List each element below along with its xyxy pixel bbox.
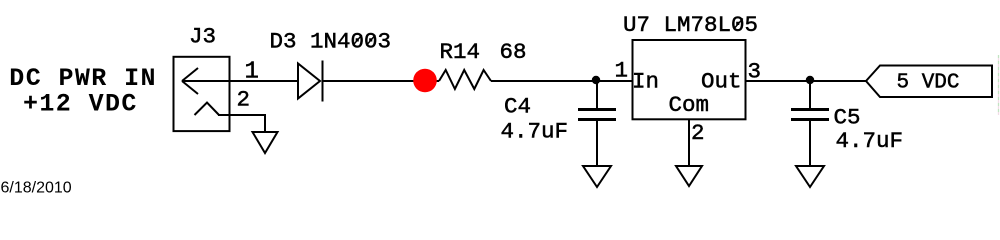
IC U7 LM78L05 body <box>633 40 746 119</box>
svg-text:In: In <box>632 69 659 95</box>
wire diode to resistor R14 <box>323 80 440 82</box>
net flag 5 VDC outline <box>866 66 992 98</box>
svg-text:Com: Com <box>669 92 710 118</box>
wire U7 Out pin3 to net flag <box>746 80 867 82</box>
svg-text:4.7uF: 4.7uF <box>836 128 904 154</box>
slashed zero of LM78L05 <box>734 19 743 30</box>
slashed zeros of 1N4003 <box>353 35 362 46</box>
diode D3 <box>298 61 323 102</box>
svg-text:5 VDC: 5 VDC <box>897 72 960 95</box>
ground (J3 pin2) <box>253 132 278 153</box>
svg-text:2: 2 <box>237 87 251 113</box>
svg-text:D3 1N4003: D3 1N4003 <box>270 29 392 55</box>
svg-text:C4: C4 <box>504 94 531 120</box>
svg-text:6/18/2010: 6/18/2010 <box>1 180 72 196</box>
capacitor C4 <box>578 81 616 166</box>
wire resistor to U7 In <box>491 80 632 82</box>
ground (U7 pin2) <box>676 166 702 186</box>
connector J3 sleeve chevron <box>195 103 220 116</box>
clipboard edge dashes <box>998 55 1000 115</box>
svg-text:2: 2 <box>691 120 705 146</box>
node junction at C4 <box>592 76 600 84</box>
svg-text:C5: C5 <box>834 105 861 131</box>
connector J3 body <box>174 57 230 131</box>
svg-text:Out: Out <box>701 69 742 95</box>
node port marker (red dot) <box>413 69 437 93</box>
svg-text:4.7uF: 4.7uF <box>501 119 569 145</box>
svg-text:R14: R14 <box>440 39 481 65</box>
wire U7 Com pin2 to ground <box>688 119 690 166</box>
ground (C4) <box>583 166 611 187</box>
node junction at C5 <box>806 76 814 84</box>
ground (C5) <box>796 166 824 187</box>
svg-text:+12 VDC: +12 VDC <box>23 90 138 119</box>
connector J3 center-pin arrow <box>182 68 230 94</box>
svg-text:1: 1 <box>615 58 629 84</box>
resistor R14 <box>439 70 491 89</box>
capacitor C5 <box>791 81 829 166</box>
wire J3 pin1 to diode D3 <box>230 80 299 82</box>
wire J3 pin2 to ground <box>218 115 265 133</box>
svg-text:J3: J3 <box>189 24 216 50</box>
svg-text:68: 68 <box>500 39 527 65</box>
